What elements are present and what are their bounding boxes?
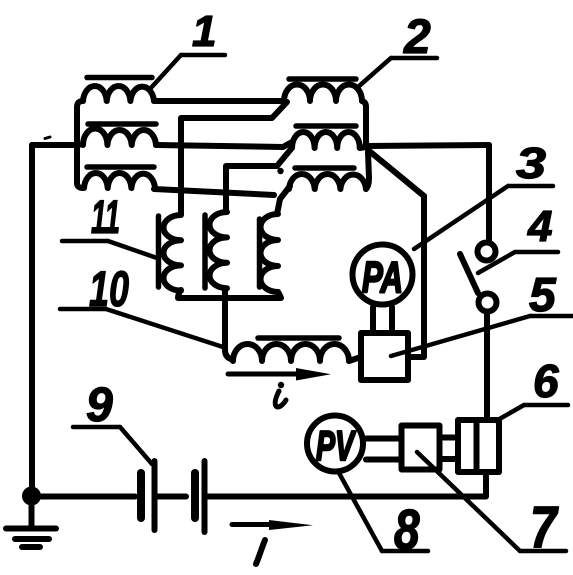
wire T1 winding1 to T2 winding1 [154, 98, 284, 104]
wire winding L2 top to T2 winding2 [226, 149, 291, 211]
wire PA legs [370, 307, 376, 332]
svg-text:11: 11 [91, 190, 120, 243]
battery plate long 2 [202, 461, 208, 532]
switch contact circle top (item 4) [478, 243, 496, 261]
svg-text:9: 9 [86, 379, 113, 432]
svg-text:6: 6 [533, 355, 559, 407]
wire PV to box7 top [366, 436, 401, 442]
svg-text:4: 4 [527, 202, 552, 251]
battery GB1 (item 9) plate short 1 [137, 473, 145, 518]
wire T2 winding2 right to rail [360, 147, 366, 148]
transformer T1 core bar 2 [88, 121, 156, 127]
battery plate short 2 [191, 473, 199, 518]
wire tap down to coil 10 [225, 289, 231, 359]
wire component 6 down to bus [483, 472, 489, 494]
wire bottom bus of windings [178, 290, 281, 298]
wire between battery cells [158, 494, 186, 500]
wire to T2 winding3 [280, 186, 290, 199]
wire T1 winding3 out [154, 189, 274, 195]
transformer T1 winding 3 [84, 173, 155, 188]
winding L1 core bar [156, 216, 162, 287]
wire from left rail to T1 [32, 142, 79, 148]
wire right rail down to switch [486, 145, 492, 240]
transformer T2 core bar 3 [295, 165, 354, 171]
battery plate long 1 [152, 461, 158, 530]
transformer T2 core bar 2 [296, 123, 356, 129]
component 6 inner plate [474, 420, 480, 472]
transformer T1 winding 1 [83, 86, 154, 101]
wire box7 to component 6 top stub [440, 435, 458, 441]
speck mark [45, 137, 50, 139]
wire diagonal junction to ammeter branch [368, 150, 424, 196]
transformer T2 winding 3 [289, 174, 366, 189]
winding L3 [261, 214, 279, 292]
wire junction to top right corner [366, 145, 489, 146]
transformer T1 winding 2 [83, 129, 156, 146]
current arrow i [228, 372, 300, 377]
switch contact circle bottom [479, 294, 497, 312]
svg-text:1: 1 [192, 7, 216, 56]
switch blade [460, 254, 478, 293]
svg-text:3: 3 [516, 139, 546, 188]
winding L1 [163, 215, 181, 291]
label I [256, 540, 265, 564]
ammeter PA (item 3) [353, 245, 413, 305]
transformer T2 winding 1 [284, 85, 362, 101]
coil 10 [233, 344, 349, 361]
box item 7 [402, 426, 440, 470]
wire T1 winding2 to T2 winding2 [156, 142, 292, 147]
wire switch to component 6 [484, 314, 490, 419]
wire coil 10 to box 5 [349, 357, 361, 361]
winding L2 core bar [202, 215, 208, 288]
wire box7 to component 6 bottom stub [440, 456, 458, 462]
component 6 body [458, 420, 499, 472]
current arrow I [232, 522, 275, 527]
wire bottom bus left of battery [41, 494, 135, 500]
wire left vertical rail [29, 145, 35, 490]
junction dot ground node [22, 487, 41, 506]
transformer T1 core bar 3 [87, 164, 154, 170]
box item 5 [361, 333, 408, 380]
transformer T1 core bar 1 [87, 75, 152, 81]
junction blob [277, 168, 283, 174]
wire T2 winding3 right rise [366, 152, 369, 189]
wire PV to box7 bottom [366, 457, 401, 463]
winding L3 core bar [257, 219, 263, 287]
wire bottom bus right of battery [208, 472, 486, 497]
wire winding L3 top up [277, 199, 280, 214]
coil 10 core bar [258, 335, 339, 341]
wire vertical to box5 [409, 196, 424, 357]
wire winding L1 top to T2 winding1 [181, 102, 287, 214]
winding L2 [210, 212, 228, 288]
transformer T2 winding 2 [292, 132, 360, 148]
label i [278, 382, 284, 388]
ground [29, 503, 35, 526]
svg-text:PV: PV [316, 422, 356, 469]
svg-text:PA: PA [362, 253, 403, 302]
wire T2 right rail [362, 101, 366, 146]
transformer T2 core bar 1 [289, 76, 356, 82]
voltmeter PV (item 8) [307, 416, 363, 472]
wire T1 left rail [77, 101, 83, 188]
